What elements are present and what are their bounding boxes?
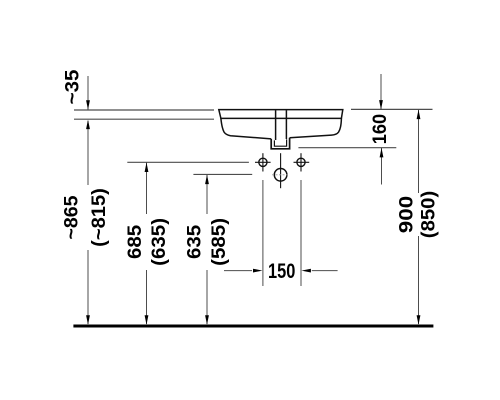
countertop reference line (right of basin) <box>351 108 433 110</box>
drain cup outer <box>271 138 289 149</box>
extension line from left faucet hole down <box>262 180 264 286</box>
svg-text:(585): (585) <box>209 218 230 266</box>
drain hole reference line <box>193 173 252 175</box>
svg-text:150: 150 <box>268 259 295 282</box>
dim ~35 arrow up <box>86 120 90 130</box>
dim ~865 arrow down (floor) <box>86 315 90 325</box>
washbasin bowl outer wall left <box>221 118 271 138</box>
svg-text:160: 160 <box>369 114 390 144</box>
extension line from right faucet hole down <box>300 180 302 286</box>
mixer hole crosshair horizontal (faint) <box>272 174 289 176</box>
washbasin bowl outer wall right <box>290 118 342 137</box>
mixer hole circle <box>274 169 287 182</box>
washbasin rim/flange outline <box>219 110 343 119</box>
dim 635 arrow up <box>205 175 209 185</box>
svg-text:~865: ~865 <box>62 195 83 239</box>
dim 635 arrow down <box>205 315 209 325</box>
svg-text:~35: ~35 <box>62 70 83 105</box>
dim 150 right line + arrow <box>312 270 338 272</box>
svg-text:(~815): (~815) <box>89 188 110 247</box>
overflow column right edge <box>285 110 287 139</box>
floor line <box>73 325 433 328</box>
dim ~35 arrow down <box>86 100 90 110</box>
dim 160 arrow down <box>379 100 383 110</box>
svg-text:685: 685 <box>125 225 146 259</box>
dim 900 vertical line <box>418 109 420 193</box>
countertop bottom line (left of basin) <box>74 118 214 120</box>
faucet hole left crosshair <box>255 161 271 163</box>
faucet hole reference line <box>127 161 249 163</box>
dim 160 vertical line top <box>380 74 382 109</box>
dim 900 arrow down <box>417 315 421 325</box>
svg-text:(850): (850) <box>418 191 439 238</box>
dim ~35 / ~865 vertical line <box>87 76 89 110</box>
overflow column left edge <box>275 110 277 140</box>
countertop top line (left of basin) <box>74 109 214 111</box>
svg-text:635: 635 <box>184 225 205 259</box>
drain cup inner <box>274 139 286 146</box>
mixer hole crosshair vertical <box>280 153 282 188</box>
faucet hole right crosshair <box>294 161 310 163</box>
faucet hole left circle <box>259 158 267 166</box>
dim 685 arrow down <box>145 315 149 325</box>
dim 150 horizontal: left line + arrow <box>224 270 252 272</box>
dim 685 arrow up <box>145 163 149 173</box>
dim 160 arrow up <box>380 148 384 158</box>
svg-text:(635): (635) <box>149 218 170 266</box>
dim 900 arrow up <box>417 110 421 120</box>
svg-text:900: 900 <box>396 196 417 233</box>
tap level reference line (right) <box>298 147 396 149</box>
dim 685 vertical line <box>146 162 148 214</box>
dim 160 vertical line bottom tail <box>381 148 383 185</box>
faucet hole right circle <box>297 158 305 166</box>
dim 635 vertical line <box>206 174 208 214</box>
